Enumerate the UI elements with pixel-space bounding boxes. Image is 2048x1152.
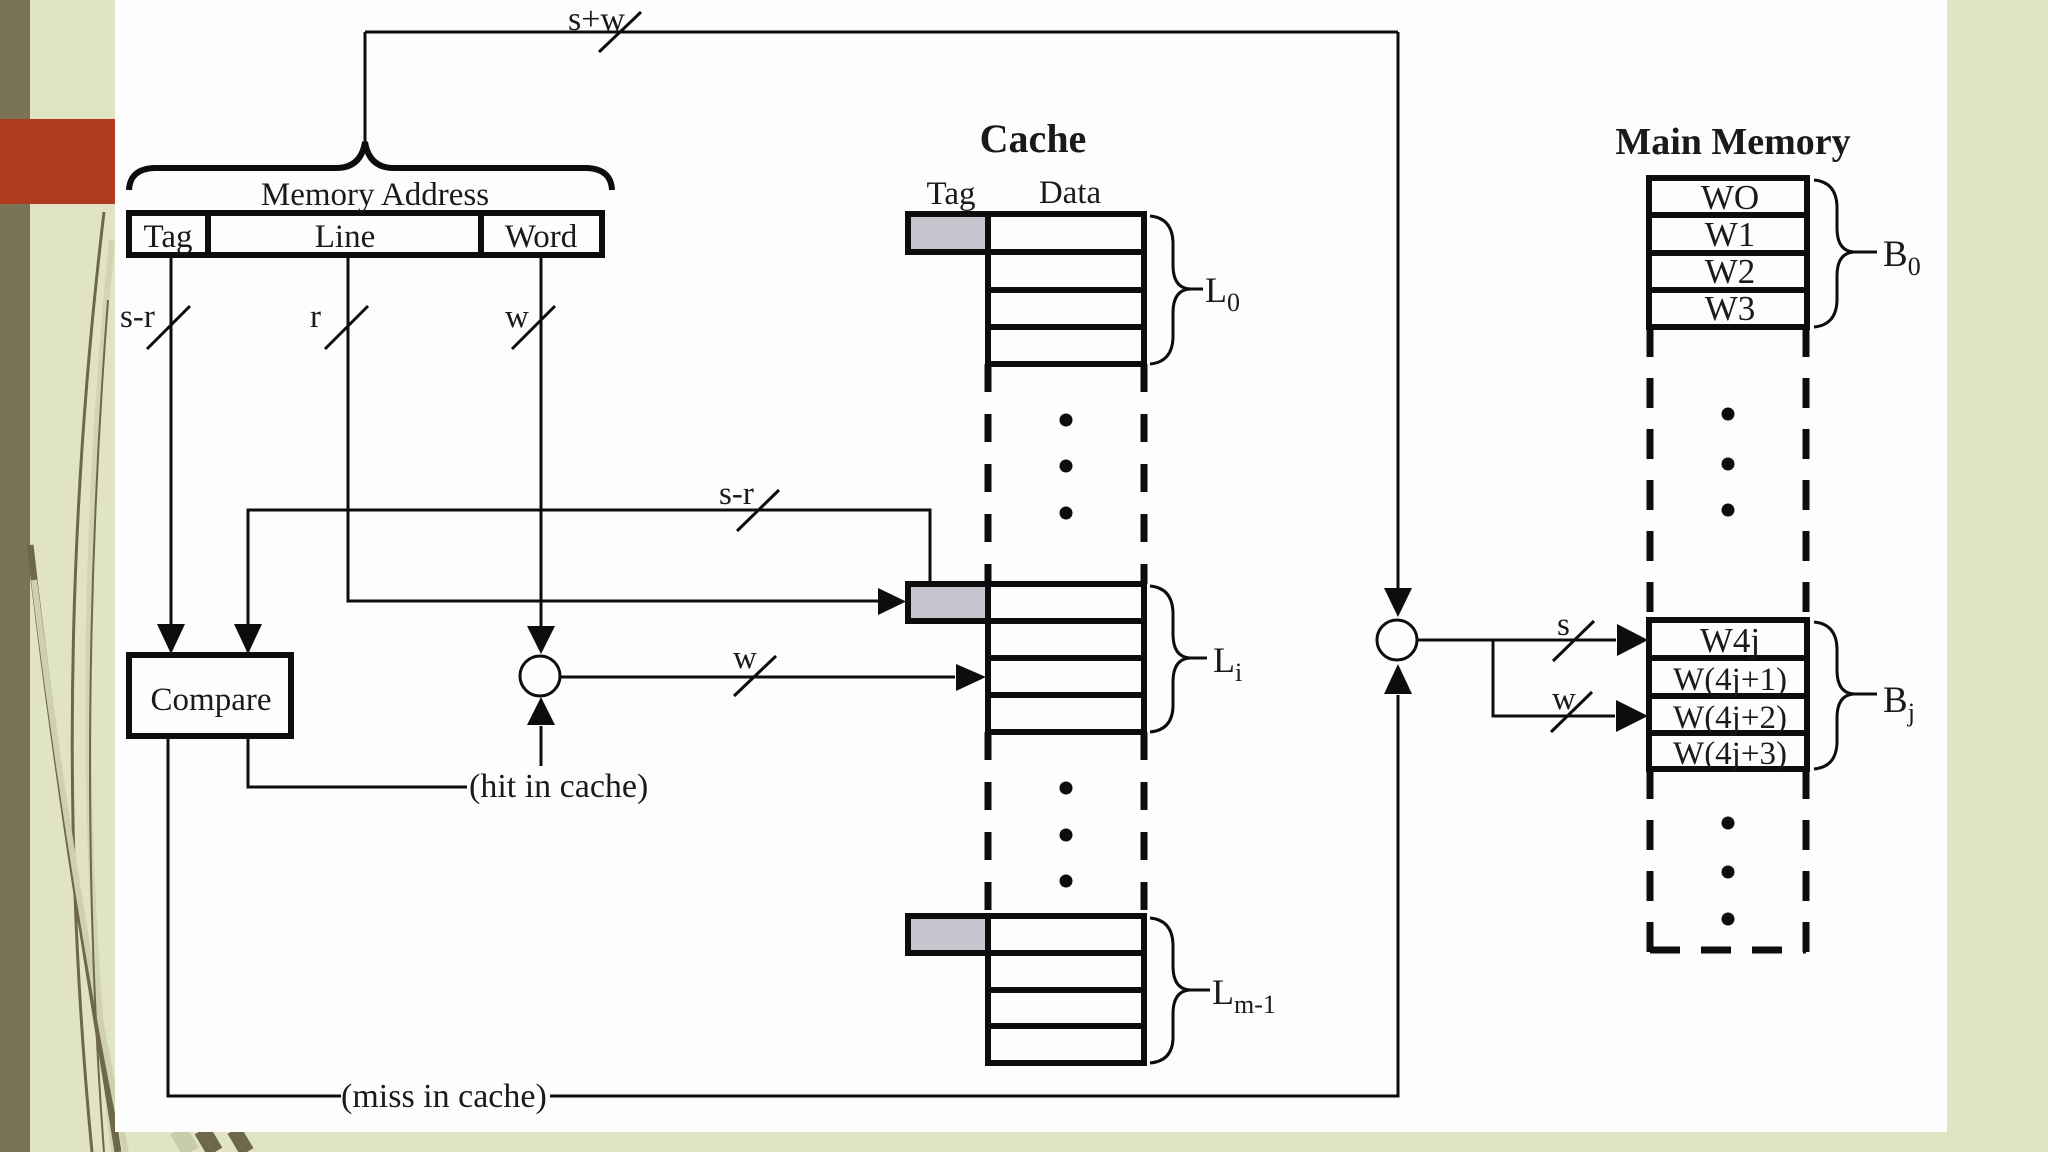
svg-text:Main Memory: Main Memory	[1615, 121, 1850, 163]
svg-text:Tag: Tag	[926, 176, 975, 212]
svg-text:WO: WO	[1701, 178, 1759, 217]
svg-text:Data: Data	[1039, 175, 1102, 211]
svg-text:w: w	[1552, 681, 1576, 717]
svg-text:W4j: W4j	[1700, 621, 1760, 660]
svg-text:s: s	[1557, 607, 1570, 643]
svg-text:s-r: s-r	[719, 476, 754, 512]
svg-text:(miss in cache): (miss in cache)	[341, 1078, 547, 1115]
svg-text:Tag: Tag	[143, 219, 192, 255]
svg-text:s+w: s+w	[568, 1, 625, 38]
svg-text:Memory Address: Memory Address	[261, 177, 489, 213]
svg-text:s-r: s-r	[120, 299, 155, 335]
svg-text:W(4j+3): W(4j+3)	[1673, 736, 1787, 772]
svg-text:Cache: Cache	[980, 116, 1087, 161]
svg-text:(hit in cache): (hit in cache)	[469, 768, 648, 805]
svg-text:W2: W2	[1705, 252, 1756, 291]
svg-text:Compare: Compare	[151, 682, 272, 718]
svg-text:r: r	[310, 299, 321, 335]
svg-text:W1: W1	[1705, 215, 1756, 254]
svg-text:w: w	[733, 640, 757, 676]
svg-text:w: w	[505, 299, 529, 335]
svg-text:W(4j+1): W(4j+1)	[1673, 662, 1787, 698]
svg-text:W(4j+2): W(4j+2)	[1673, 700, 1787, 736]
svg-text:W3: W3	[1705, 289, 1756, 328]
svg-text:Line: Line	[315, 219, 375, 255]
svg-text:Word: Word	[505, 219, 578, 255]
